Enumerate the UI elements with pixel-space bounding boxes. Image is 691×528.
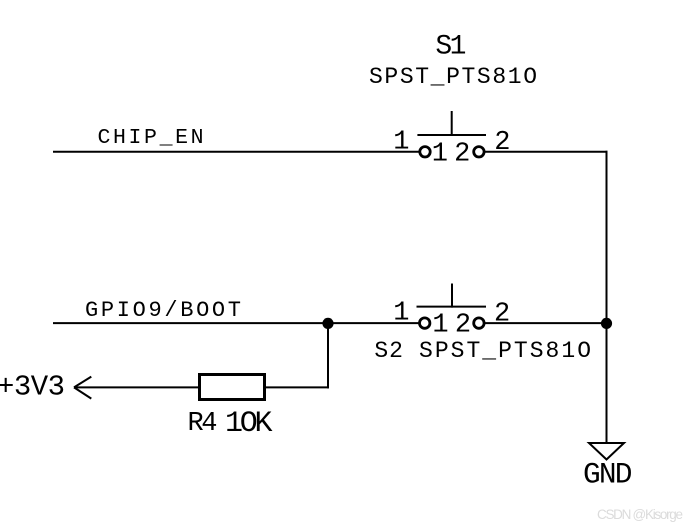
wire S2 pin2 to right junction: [484, 322, 607, 324]
ground symbol: [589, 443, 624, 460]
svg-text:1: 1: [393, 299, 409, 329]
svg-text:SPST_PTS81O: SPST_PTS81O: [419, 338, 591, 364]
junction at resistor branch: [322, 318, 333, 329]
svg-text:S2: S2: [374, 338, 403, 364]
wire resistor to branch corner: [266, 386, 329, 388]
power arrow +3V3: [74, 377, 91, 399]
svg-text:1OK: 1OK: [225, 407, 273, 441]
svg-text:2: 2: [454, 139, 470, 169]
wire S1 pin2 to right corner: [484, 151, 608, 153]
wire +3V3 arrow to resistor: [74, 386, 198, 388]
resistor R4: [200, 375, 265, 400]
wire branch vertical up to junction: [327, 323, 329, 388]
svg-text:S1: S1: [435, 31, 466, 62]
svg-text:CHIP_EN: CHIP_EN: [98, 126, 204, 150]
switch S2: [417, 284, 487, 329]
wire right vertical down to GND: [606, 151, 608, 443]
svg-text:1: 1: [432, 139, 448, 169]
wire GPIO9/BOOT horizontal: [53, 322, 420, 324]
svg-text:2: 2: [494, 299, 510, 329]
svg-text:GPIO9/BOOT: GPIO9/BOOT: [85, 298, 241, 323]
svg-text:2: 2: [455, 311, 471, 341]
svg-text:1: 1: [393, 127, 409, 157]
wire CHIP_EN horizontal: [53, 151, 420, 153]
svg-text:+3V3: +3V3: [0, 370, 65, 403]
svg-text:SPST_PTS81O: SPST_PTS81O: [369, 64, 537, 90]
svg-text:2: 2: [494, 128, 510, 158]
svg-text:1: 1: [432, 311, 448, 341]
svg-text:GND: GND: [583, 458, 633, 492]
svg-text:R4: R4: [188, 409, 218, 439]
switch S1: [417, 111, 486, 157]
svg-text:CSDN @Kisorge: CSDN @Kisorge: [597, 507, 683, 522]
junction on right vertical wire: [601, 318, 612, 329]
